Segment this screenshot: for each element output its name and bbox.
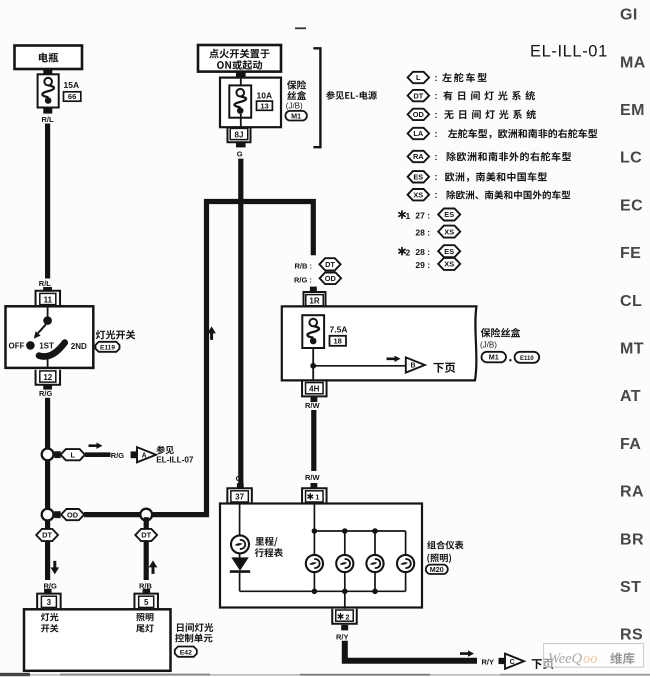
ignition source box [198, 45, 281, 72]
svg-text:M1: M1 [489, 353, 499, 362]
label OFF [9, 342, 25, 351]
label R/G lower [44, 582, 58, 591]
flow arrow up right [149, 560, 158, 574]
watermark weeqoo [544, 644, 644, 668]
wire branch riser-run [207, 202, 314, 518]
svg-text:MT: MT [620, 341, 644, 358]
label R/L upper [42, 115, 55, 124]
switch pivot [43, 316, 52, 325]
svg-text:E110: E110 [520, 356, 534, 362]
tab 8J-out [236, 141, 246, 147]
tab 4H-out [311, 396, 318, 402]
label 参见EL-电源 [326, 91, 377, 100]
legend *1 row1 [399, 209, 460, 221]
fuse 10A 13 [229, 85, 272, 117]
fuse box J/B middle [282, 306, 477, 380]
tab fuse-out [43, 108, 52, 114]
svg-text::: : [435, 129, 438, 139]
svg-text:M20: M20 [430, 565, 444, 574]
label R/Y upper [336, 633, 349, 642]
connector *1 [302, 488, 327, 503]
connector *2 [332, 609, 357, 624]
svg-text:WeeQ: WeeQ [548, 651, 583, 667]
label R/B DT [295, 258, 341, 270]
svg-text:CL: CL [620, 293, 642, 310]
svg-text:M1: M1 [291, 111, 301, 120]
ref E110 [509, 352, 539, 363]
svg-text:3: 3 [47, 598, 52, 607]
tab conn12-out [43, 384, 52, 389]
light switch E119 box [6, 306, 94, 368]
tab arrow-C [499, 658, 505, 664]
label R/G OD [294, 273, 341, 285]
ref M20 [426, 565, 448, 574]
svg-text:1: 1 [406, 211, 411, 221]
lamp illum 1 [306, 555, 323, 572]
wire to arrow B [313, 365, 405, 367]
diode D1 [230, 557, 250, 571]
svg-text:AT: AT [620, 388, 641, 405]
svg-text:B: B [410, 363, 415, 370]
page arrow C next page [505, 654, 524, 669]
svg-text:G: G [236, 474, 242, 483]
wire 37-odolamp [239, 504, 241, 536]
svg-text::: : [435, 110, 438, 120]
svg-text:L: L [71, 450, 76, 459]
wire ign-fuse [240, 78, 242, 89]
svg-text:ES: ES [444, 247, 454, 256]
lamp illum 2 drop [344, 531, 346, 591]
label R/Y lower [482, 657, 495, 666]
legend tag ES [408, 171, 547, 182]
svg-text:EC: EC [620, 197, 643, 214]
bracket EL-POWER [313, 48, 320, 147]
svg-text:ES: ES [413, 173, 423, 182]
svg-text:BR: BR [620, 531, 644, 548]
svg-text:R/Y: R/Y [336, 633, 349, 642]
svg-text:66: 66 [68, 92, 76, 101]
daytime light control unit E42 box [24, 609, 171, 671]
wire *1-topbus [313, 504, 315, 532]
junction topbus 2 [342, 528, 348, 534]
label G lower [236, 474, 242, 483]
svg-text:8J: 8J [235, 130, 244, 139]
connector 11 [36, 291, 61, 306]
tab OD-branch [54, 511, 60, 518]
wire OD-run right [152, 512, 209, 517]
svg-text:1R: 1R [309, 297, 319, 306]
junction fuse18 out [310, 363, 316, 369]
flow arrow to B [387, 356, 401, 362]
wire R/G [45, 398, 50, 449]
svg-text:R/B :: R/B : [295, 261, 313, 270]
tab conn37 [237, 483, 244, 488]
ref E42 [175, 647, 197, 657]
tab conn3 [44, 589, 52, 594]
svg-text:E42: E42 [180, 649, 192, 656]
page arrow A to EL-ILL-07 [137, 447, 156, 462]
svg-text:7.5A: 7.5A [330, 325, 348, 335]
svg-text:DT: DT [325, 260, 335, 269]
svg-text:FA: FA [620, 436, 641, 453]
bottom bus [240, 590, 406, 592]
svg-text:FE: FE [620, 245, 641, 262]
switch OFF contact [26, 341, 35, 350]
svg-text:13: 13 [260, 101, 268, 110]
wire L-branch [85, 452, 111, 457]
svg-text:29 :: 29 : [415, 260, 430, 270]
svg-text:28 :: 28 : [415, 227, 430, 237]
switch wire stub bottom [47, 355, 49, 368]
svg-text::: : [435, 172, 438, 182]
label R/W lower [305, 473, 321, 482]
flow arrow up riser [207, 326, 216, 340]
connector 5 [134, 594, 158, 609]
label 保险丝盒 top [286, 80, 306, 110]
svg-text:15A: 15A [64, 80, 80, 90]
scan artifact bottom line [0, 673, 650, 676]
svg-text:R/G: R/G [44, 582, 58, 591]
svg-text:R/G: R/G [39, 389, 53, 398]
svg-text::: : [435, 190, 438, 200]
legend *1 row2 [415, 226, 460, 238]
legend tag DT [408, 90, 535, 101]
margin section letters [620, 7, 646, 644]
svg-text:L: L [416, 73, 421, 82]
ref M1 top [285, 111, 307, 121]
wire node1-node2 [45, 460, 50, 510]
tab conn11 [43, 287, 52, 292]
wire R/L [45, 124, 50, 279]
ref E119 [96, 342, 120, 352]
label 参见 EL-ILL-07 [156, 446, 194, 465]
svg-text:RA: RA [413, 152, 424, 161]
label 里程/行程表 [255, 537, 283, 557]
svg-text:OFF: OFF [9, 342, 25, 351]
svg-text:(J/B): (J/B) [480, 341, 497, 350]
svg-text:37: 37 [235, 493, 244, 502]
switch arm to OFF [34, 324, 46, 338]
legend tag XS [408, 189, 571, 200]
svg-text:2: 2 [406, 247, 411, 257]
wire fuse-8J [240, 114, 242, 127]
wire odolamp-diode [239, 553, 241, 558]
legend tag RA [408, 151, 571, 162]
tab ign-JB [236, 72, 246, 78]
svg-text:10A: 10A [257, 91, 273, 101]
lamp illum 2 [336, 555, 353, 572]
svg-text:2ND: 2ND [71, 342, 87, 351]
svg-text:R/L: R/L [42, 115, 55, 124]
lamp illum 1 drop [313, 531, 315, 591]
tag DT left [36, 529, 58, 541]
svg-text:ST: ST [620, 579, 641, 596]
connector 1R [304, 292, 326, 307]
ref M1 middle [482, 352, 507, 363]
svg-text:C: C [510, 659, 515, 666]
tag DT right [135, 529, 157, 541]
switch selector arc [39, 343, 65, 357]
svg-text:R/G :: R/G : [294, 276, 312, 285]
junction topbus 1 [312, 528, 318, 534]
svg-text:OD: OD [325, 274, 337, 283]
connector 3 [37, 594, 61, 609]
label R/G branch [111, 451, 125, 460]
connector 37 [227, 488, 252, 503]
connector 8J [228, 127, 251, 142]
svg-text:R/L: R/L [39, 279, 52, 288]
svg-text:MA: MA [620, 54, 646, 71]
svg-text:12: 12 [43, 373, 52, 382]
wire R/W [311, 410, 316, 471]
node B junction [42, 509, 54, 521]
wire G [238, 159, 243, 484]
svg-text:XS: XS [444, 227, 454, 236]
junction botbus 3 [372, 589, 378, 595]
tab conn5 [143, 589, 151, 594]
legend *2 row1 [399, 245, 460, 257]
svg-text:EL-ILL-01: EL-ILL-01 [530, 43, 608, 61]
tab *2-out [341, 625, 348, 631]
svg-text:DT: DT [42, 531, 52, 540]
svg-text:(J/B): (J/B) [286, 101, 303, 110]
label 2ND [71, 342, 87, 351]
label 日间灯光控制单元 [175, 623, 213, 643]
svg-text:1: 1 [315, 493, 319, 502]
legend *2 row2 [415, 258, 460, 270]
tab L-branch [54, 451, 60, 458]
wire fuse18-4H [312, 348, 314, 380]
svg-text:LC: LC [620, 150, 642, 167]
lamp illum 3 drop [374, 531, 376, 591]
lamp illum 3 [366, 555, 383, 572]
page arrow B next page [406, 357, 425, 372]
svg-text:GI: GI [620, 7, 638, 24]
svg-text:2: 2 [345, 613, 349, 622]
svg-text:OD: OD [413, 110, 425, 119]
wire DT-conn3 [45, 541, 50, 580]
svg-text:R/G: R/G [111, 451, 125, 460]
label R/W upper [305, 401, 321, 410]
svg-text:LA: LA [413, 129, 424, 138]
svg-text:OD: OD [67, 510, 79, 519]
tag OD [61, 509, 84, 520]
svg-text:R/Y: R/Y [482, 657, 495, 666]
svg-text:RA: RA [620, 484, 644, 501]
flow arrow L-branch [89, 443, 103, 449]
connector 12 [36, 370, 61, 385]
wire below node C [144, 517, 149, 529]
legend tag LA [408, 128, 598, 139]
svg-text:A: A [142, 452, 147, 459]
svg-text:E119: E119 [100, 344, 115, 351]
svg-text:EM: EM [620, 102, 645, 119]
svg-text:XS: XS [444, 260, 454, 269]
switch wire stub top [47, 306, 49, 318]
svg-text:18: 18 [334, 337, 342, 346]
svg-text:XS: XS [413, 190, 423, 199]
svg-text:4H: 4H [309, 385, 319, 394]
node C junction [140, 509, 152, 521]
tag L [61, 449, 86, 460]
junction topbus 3 [372, 528, 378, 534]
svg-text:EL-ILL-07: EL-ILL-07 [156, 455, 194, 464]
lamp odometer [231, 535, 249, 553]
label 下页 B [433, 363, 455, 373]
lamp illum 4 drop [405, 531, 407, 591]
wire OD-run left [84, 512, 141, 517]
wire DT-conn5 [144, 541, 149, 580]
wire below node B [45, 520, 50, 530]
svg-text:G: G [237, 150, 243, 159]
label R/L lower [39, 279, 52, 288]
svg-text:1ST: 1ST [39, 341, 54, 350]
svg-text:28 :: 28 : [415, 247, 430, 257]
junction botbus 1 [312, 589, 318, 595]
svg-text:RS: RS [620, 627, 643, 644]
svg-text:DT: DT [413, 91, 423, 100]
connector 4H [302, 381, 327, 396]
fuse 7.5A 18 [302, 315, 347, 348]
label 组合仪表(照明) [427, 541, 463, 564]
svg-text:ES: ES [444, 210, 454, 219]
battery [15, 46, 83, 70]
svg-text:oo: oo [583, 651, 598, 667]
label 灯光开关 [96, 330, 135, 339]
legend tag OD [408, 109, 536, 120]
wire botbus-*2 [344, 591, 346, 609]
label G upper [237, 150, 243, 159]
label R/G below 12 [39, 389, 53, 398]
fuse 15A 66 [38, 74, 81, 107]
scan artifact top dash [295, 27, 306, 29]
svg-text:R/B: R/B [139, 582, 153, 591]
label 保险丝盒 middle [480, 328, 520, 350]
fuse box J/B top [220, 78, 281, 128]
svg-text::: : [435, 73, 438, 83]
tab arrow-A [131, 451, 137, 458]
flow arrow down left [51, 561, 60, 575]
svg-text:DT: DT [141, 531, 151, 540]
svg-text:11: 11 [44, 295, 53, 304]
node A junction [42, 449, 54, 461]
label 灯光开关 pin3 [41, 613, 59, 633]
wire R/Y [345, 641, 477, 661]
label 1ST [39, 341, 54, 350]
tab battery-fuse [43, 69, 52, 75]
tab conn*1 [311, 483, 318, 488]
title EL-ILL-01 [530, 43, 608, 61]
label R/B [139, 582, 153, 591]
tab conn1R [310, 287, 317, 293]
svg-text:27 :: 27 : [415, 210, 430, 220]
flow arrow R/Y [460, 650, 474, 656]
junction botbus 2 [342, 589, 348, 595]
top bus [314, 530, 405, 532]
legend tag L [408, 72, 487, 83]
svg-text::: : [435, 152, 438, 162]
combination meter M20 box [220, 504, 422, 608]
svg-text:R/W: R/W [305, 401, 321, 410]
label 照明尾灯 pin5 [136, 613, 154, 632]
svg-text:R/W: R/W [305, 473, 321, 482]
lamp illum 4 [397, 555, 414, 572]
svg-text::: : [435, 91, 438, 101]
wire diode-bus [239, 573, 241, 592]
label 下页 C [532, 659, 554, 669]
svg-text:5: 5 [144, 598, 149, 607]
